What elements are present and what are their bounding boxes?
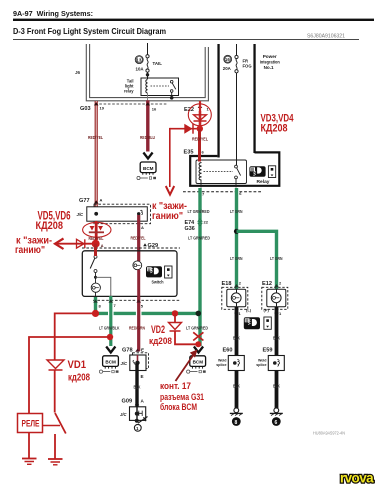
- wire E22 feed red: [199, 101, 201, 111]
- svg-text:FOG: FOG: [243, 63, 252, 68]
- svg-text:TAIL: TAIL: [153, 61, 163, 66]
- svg-text:Relay: Relay: [257, 179, 270, 185]
- svg-text:20A: 20A: [223, 66, 232, 71]
- wire РЕЛЕ to contact: [43, 425, 61, 427]
- svg-text:E18: E18: [222, 281, 232, 287]
- svg-text:LT GRN/RED: LT GRN/RED: [188, 209, 210, 214]
- connector E74/G36 marks: [198, 219, 203, 222]
- svg-text:LT GRN: LT GRN: [230, 209, 243, 214]
- svg-text:BLK: BLK: [233, 384, 241, 389]
- junction dot in switch: [94, 276, 97, 279]
- connector chevron E12-1: [274, 310, 279, 313]
- svg-text:splice: splice: [256, 363, 266, 367]
- svg-text:J6: J6: [75, 70, 81, 75]
- junction box J/C G78 dashed: [133, 353, 149, 369]
- svg-text:Power: Power: [263, 54, 277, 60]
- wire RED/GRN pin5 crossing bus: [136, 308, 142, 319]
- svg-text:BLK: BLK: [273, 384, 281, 389]
- svg-text:Switch: Switch: [152, 280, 164, 286]
- svg-text:RED/YEL: RED/YEL: [131, 236, 146, 241]
- ground E60: [230, 408, 243, 426]
- diode on ignition wire (left): [77, 239, 85, 248]
- svg-text:J/C: J/C: [77, 212, 84, 217]
- wire BLK E60 to ground: [235, 371, 239, 409]
- splice symbol right: [137, 212, 140, 215]
- svg-text:E35: E35: [184, 150, 194, 156]
- svg-text:LT GRN/RED: LT GRN/RED: [188, 236, 210, 241]
- wire RED/YEL G03-19 to G77 J/C: [95, 101, 98, 214]
- svg-text:LT GRN: LT GRN: [270, 256, 283, 261]
- svg-text:HU80A9A5972-4N: HU80A9A5972-4N: [313, 431, 345, 436]
- relay icon side box: [268, 166, 275, 178]
- arrow to BCM (right): [194, 347, 203, 353]
- junction dot green bus left: [92, 310, 99, 317]
- svg-text:VD1: VD1: [68, 359, 87, 371]
- connector E35 dashed line bottom: [183, 191, 262, 193]
- wire FR FOG fuse to relay contact: [236, 73, 238, 166]
- wire fuse to relay: [147, 72, 149, 79]
- connector chevron G09-A: [135, 402, 140, 405]
- svg-text:VD2: VD2: [151, 324, 165, 336]
- svg-text:D-3 Front Fog Light System Cir: D-3 Front Fog Light System Circuit Diagr…: [13, 27, 166, 36]
- svg-text:1: 1: [136, 426, 139, 431]
- relay coil box РЕЛЕ: [18, 414, 43, 433]
- svg-text:(L): (L): [246, 308, 252, 313]
- arrow head to ignition (right): [166, 186, 174, 195]
- svg-text:Weld: Weld: [218, 359, 227, 363]
- svg-text:BLK: BLK: [233, 336, 241, 341]
- connector G29 mark: [143, 243, 147, 246]
- wire coil to pin 7: [200, 180, 202, 188]
- wire to ignition (left): [57, 243, 93, 245]
- tail light relay box: [141, 78, 179, 96]
- svg-text:G77: G77: [79, 198, 90, 204]
- svg-text:LT GRN/BLK: LT GRN/BLK: [99, 326, 120, 331]
- BCM box (left): [99, 356, 118, 373]
- svg-text:LT GRN/RED: LT GRN/RED: [186, 326, 208, 331]
- svg-text:LT GRN: LT GRN: [230, 256, 243, 261]
- diodes VD5/VD6 symbol: [89, 221, 104, 240]
- junction dot G78: [135, 361, 139, 365]
- junction box J/C G09 body: [130, 407, 146, 421]
- svg-text:16: 16: [225, 57, 230, 62]
- connector chevron switch pin8: [93, 299, 98, 302]
- svg-text:No.1: No.1: [264, 65, 274, 71]
- junction green bus / LT GRN-RED wire: [196, 311, 202, 317]
- svg-text:E59: E59: [263, 348, 273, 354]
- svg-text:(P): (P): [264, 308, 270, 313]
- svg-text:Integration: Integration: [260, 60, 280, 66]
- svg-text:КД208: КД208: [36, 220, 64, 232]
- svg-text:BCM: BCM: [105, 360, 116, 365]
- diode VD2: [169, 323, 182, 332]
- connector chevron G77-A: [94, 200, 99, 203]
- fuse FR FOG 20A: [223, 55, 252, 73]
- svg-text:ганию": ганию": [15, 245, 45, 256]
- svg-text:RED/YEL: RED/YEL: [88, 135, 103, 140]
- junction box J/C G77 body: [87, 207, 148, 221]
- switch icon: [146, 266, 162, 277]
- connector chevron switch pin7: [109, 299, 114, 302]
- wire to ignition (right branch): [169, 128, 171, 187]
- wire RED/YEL J/C to switch lamp: [137, 215, 140, 261]
- power integration right thick line: [253, 44, 255, 153]
- connector chevron G03-16: [146, 102, 151, 105]
- svg-text:rvova: rvova: [340, 471, 374, 486]
- wire into G78: [137, 355, 139, 363]
- wire РЕЛЕ to ground: [28, 433, 30, 459]
- ground strap diagonal G09: [138, 417, 148, 424]
- weld splice E60 box: [228, 356, 244, 371]
- wire J6 bus double line: [86, 44, 208, 101]
- junction box J/C G77 dashed outline: [94, 204, 151, 224]
- tail relay coil-contact dashed link: [151, 85, 170, 87]
- svg-text:ганию": ганию": [152, 211, 183, 222]
- wire LT GRN/RED E35-7 down: [198, 188, 201, 346]
- BCM box (right): [187, 356, 206, 373]
- BCM box (mid): [137, 162, 156, 180]
- svg-text:10A: 10A: [136, 67, 145, 72]
- weld splice E59 box: [268, 356, 284, 371]
- arrow head to ignition (left): [55, 239, 64, 250]
- svg-text:8: 8: [235, 420, 238, 426]
- svg-text:S6J80A9106321: S6J80A9106321: [307, 34, 345, 40]
- wire node to switch: [94, 244, 97, 256]
- junction on bus: [170, 96, 174, 100]
- svg-text:РЕЛЕ: РЕЛЕ: [22, 419, 40, 429]
- svg-text:13: 13: [136, 57, 141, 62]
- svg-text:BCM: BCM: [193, 360, 204, 365]
- wire LT GRN pin8: [94, 297, 97, 313]
- svg-text:BCM: BCM: [143, 166, 154, 171]
- junction dot on LT GRN/BLK: [107, 334, 113, 340]
- junction dot switch supply node: [92, 240, 100, 248]
- junction dot BCM wire: [195, 341, 201, 347]
- relay contact E35: [235, 165, 238, 168]
- svg-text:КД208: КД208: [261, 122, 288, 134]
- wire VD2 lower to BCM node: [175, 331, 198, 344]
- fog lamp icon: [244, 317, 260, 329]
- svg-text:22: 22: [204, 220, 209, 225]
- annotation ellipse around VD3/VD4: [188, 104, 211, 126]
- annotation arrow to BCM pin: [176, 350, 198, 382]
- wire into G09: [136, 407, 138, 421]
- wire contact to pin 6: [235, 179, 237, 188]
- G09 internal symbol: [139, 411, 142, 416]
- junction dot G77 left: [94, 212, 98, 216]
- fog lamp E18 (left): [222, 287, 248, 309]
- svg-text:16: 16: [152, 107, 157, 112]
- arrow to BCM (left): [106, 347, 115, 353]
- diode on ignition branch (right): [170, 124, 197, 134]
- svg-text:E60: E60: [223, 348, 233, 354]
- svg-text:E12: E12: [262, 281, 272, 287]
- junction dot VD2 tap: [172, 310, 178, 316]
- junction box J/C G78 body: [130, 355, 146, 371]
- fog switch box: [82, 251, 177, 297]
- diode VD1: [47, 360, 64, 370]
- junction dot G09 bottom: [135, 419, 139, 423]
- svg-text:relay: relay: [124, 89, 134, 94]
- annotation ellipse around VD5/VD6: [83, 222, 111, 237]
- connector dashed line below switch: [93, 299, 180, 301]
- ground (annotation, left): [22, 459, 37, 465]
- junction LT GRN split: [234, 229, 239, 234]
- svg-text:E: E: [141, 348, 144, 353]
- wire relay coil feed: [29, 337, 110, 413]
- connector chevron G78-E: [135, 349, 140, 352]
- wire RED/BLU G03-16 to BCM: [147, 93, 149, 101]
- switch blade: [90, 258, 95, 268]
- wire BLK G78 to G09: [135, 363, 138, 408]
- fuse TAIL 10A: [135, 55, 162, 72]
- switch contact lower: [94, 270, 97, 273]
- wire BLK E18 down: [235, 307, 239, 356]
- ground id circle I1: [134, 424, 141, 431]
- connector chevron G03-19: [94, 102, 99, 105]
- svg-text:G36: G36: [185, 226, 195, 232]
- svg-text:блока BCM: блока BCM: [160, 402, 197, 413]
- wire VD2 upper: [174, 313, 176, 322]
- power integration left thick line: [217, 44, 219, 158]
- diode VD3/VD4 symbol on E22 wire: [194, 111, 207, 126]
- junction dot G09: [135, 412, 139, 416]
- wire switch out to VD1 branch: [55, 312, 96, 314]
- svg-text:BLK: BLK: [134, 385, 142, 390]
- svg-text:G09: G09: [122, 399, 133, 405]
- wire BLK E12 down: [275, 307, 279, 356]
- wire LT GRN E35-6 down: [235, 188, 238, 289]
- relay box E35 outline: [190, 152, 279, 185]
- ground (annotation, right): [48, 459, 63, 465]
- svg-text:кд208: кд208: [149, 336, 172, 347]
- wire FR FOG fuse feed: [236, 44, 238, 55]
- connector chevron switch pin5: [136, 299, 141, 302]
- relay contact blade (annotation): [55, 413, 66, 434]
- fog lamp E12 (right): [262, 287, 288, 309]
- svg-text:G78: G78: [122, 348, 133, 354]
- connector dashed line above switch: [82, 247, 180, 249]
- green bus wire: [96, 312, 199, 315]
- arrow to BCM (mid): [143, 153, 152, 159]
- svg-text:конт. 17: конт. 17: [160, 381, 191, 392]
- connector G03 dashed line: [95, 103, 167, 105]
- wire LT GRN/BLK pin7 crossing bus: [108, 308, 114, 319]
- wire VD1 vertical lower: [54, 370, 56, 413]
- svg-text:E74: E74: [185, 220, 195, 226]
- wire contact to lamp: [95, 273, 97, 284]
- connector chevron E22-1: [198, 105, 203, 108]
- svg-text:G03: G03: [80, 106, 91, 112]
- wire relay contact to ground: [54, 434, 56, 459]
- relay coil-contact dashed link: [204, 171, 234, 173]
- ground E59: [270, 408, 283, 426]
- tail relay contact: [170, 80, 173, 83]
- switch contact upper: [94, 255, 97, 258]
- header thick rule: [13, 19, 374, 21]
- cut mark X on LT GRN/RED: [193, 332, 203, 340]
- relay coil E35: [199, 163, 201, 181]
- relay inner body: [196, 160, 247, 184]
- svg-text:E: E: [141, 374, 144, 379]
- svg-text:splice: splice: [216, 363, 226, 367]
- relay icon: [249, 166, 265, 176]
- wire BLK E59 to ground: [275, 371, 279, 409]
- illumination lamp in switch: [91, 283, 100, 292]
- svg-text:A: A: [100, 198, 103, 203]
- connector chevron E18-2: [234, 284, 239, 287]
- svg-text:J/C: J/C: [121, 361, 128, 366]
- wire RED/YEL to E35-6: [198, 129, 201, 162]
- svg-text:A: A: [141, 225, 144, 230]
- wire VD1 vertical upper: [54, 313, 56, 361]
- switch icon side box: [165, 266, 172, 278]
- svg-text:BLK: BLK: [273, 336, 281, 341]
- junction dot E22 node: [197, 126, 203, 132]
- connector chevron E12-2: [274, 284, 279, 287]
- svg-text:6: 6: [275, 420, 278, 426]
- svg-text:RED/GRN: RED/GRN: [129, 326, 145, 331]
- wire lamp to pin 8: [95, 292, 97, 297]
- svg-text:кд208: кд208: [68, 372, 90, 384]
- header thin rule: [13, 38, 359, 41]
- fog lamp icon side box: [264, 317, 271, 329]
- connector chevron E18-1: [234, 310, 239, 313]
- wire lamp to pin 5: [137, 270, 140, 297]
- svg-text:RED/BLU: RED/BLU: [140, 135, 155, 140]
- rvova watermark logo: [340, 471, 374, 486]
- svg-text:19: 19: [100, 106, 105, 111]
- svg-text:Weld: Weld: [258, 359, 267, 363]
- wire LT GRN branch right: [237, 231, 277, 289]
- svg-text:9A-97 Wiring Systems:: 9A-97 Wiring Systems:: [13, 11, 93, 18]
- junction fuse/relay node: [146, 73, 149, 76]
- wire TAIL fuse feed stub: [147, 43, 149, 55]
- wire junction to pin7 branch: [96, 277, 111, 296]
- svg-text:A: A: [101, 244, 104, 248]
- svg-text:J/C: J/C: [120, 412, 127, 417]
- svg-text:RED/YEL: RED/YEL: [192, 137, 208, 142]
- indicator lamp in switch: [133, 261, 142, 270]
- tail relay coil: [146, 80, 148, 94]
- wire relay contact to bus: [171, 92, 173, 98]
